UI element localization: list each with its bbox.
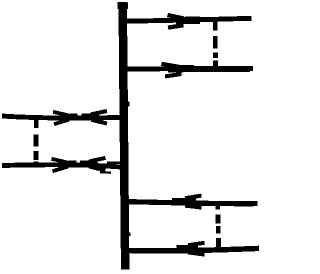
arrow A1 on L1 (points right): head body bbox=[176, 17, 200, 25]
arrow A1 barbs bbox=[168, 15, 184, 28]
arrow A3a barbs bbox=[53, 112, 69, 124]
wire L4 retrace stub (upper, near bus) bbox=[107, 161, 125, 164]
arrow A3a on L3 (points right): head body bbox=[62, 114, 78, 121]
arrow A4a barbs bbox=[52, 159, 69, 171]
arrow A2 barbs bbox=[162, 64, 182, 77]
wire L5 (bottom-right upper branch) bbox=[121, 202, 258, 204]
arrow A3b on L3 (points left): head body bbox=[82, 113, 100, 120]
arrow A5 on L5 (points left toward bus): head body bbox=[172, 198, 196, 206]
wire L4 (mid-left lower branch) bbox=[2, 165, 124, 167]
arrow A2 on L2 (points right): head body bbox=[168, 65, 194, 73]
bus top blob (pen start) bbox=[117, 2, 128, 9]
dashed tie DC (links L5 and L6) bbox=[215, 204, 220, 248]
bus right nub (y~234) bbox=[127, 233, 131, 237]
arrow A5 barbs bbox=[185, 196, 202, 208]
wire L4 lower tick (pen skip, left of bus) bbox=[100, 171, 111, 174]
wire L2 (top-right lower branch) bbox=[121, 66, 253, 72]
wire L2 retrace (doubled stroke right of arrow) bbox=[190, 69, 250, 72]
wire L6 (bottom-right lower branch) bbox=[121, 248, 259, 250]
wire L3 (mid-left upper branch) bbox=[2, 116, 124, 118]
bus (main vertical feeder line) bbox=[123, 4, 126, 270]
dashed tie DB (links L3 and L4) bbox=[34, 116, 39, 167]
arrow A4b on L4 (points left): head body bbox=[80, 160, 98, 167]
dashed tie DA (links L1 and L2) bbox=[213, 21, 218, 68]
arrow A6 barbs bbox=[188, 243, 205, 255]
wire L1 (top-right upper branch) bbox=[121, 18, 252, 21]
arrow A4b barbs bbox=[90, 158, 106, 170]
arrow A4a on L4 (points right): head body bbox=[61, 161, 77, 168]
bus right bump (y~103) bbox=[126, 102, 130, 107]
arrow A6 on L6 (points left toward bus): head body bbox=[177, 245, 199, 253]
arrow A3b barbs bbox=[92, 111, 108, 124]
